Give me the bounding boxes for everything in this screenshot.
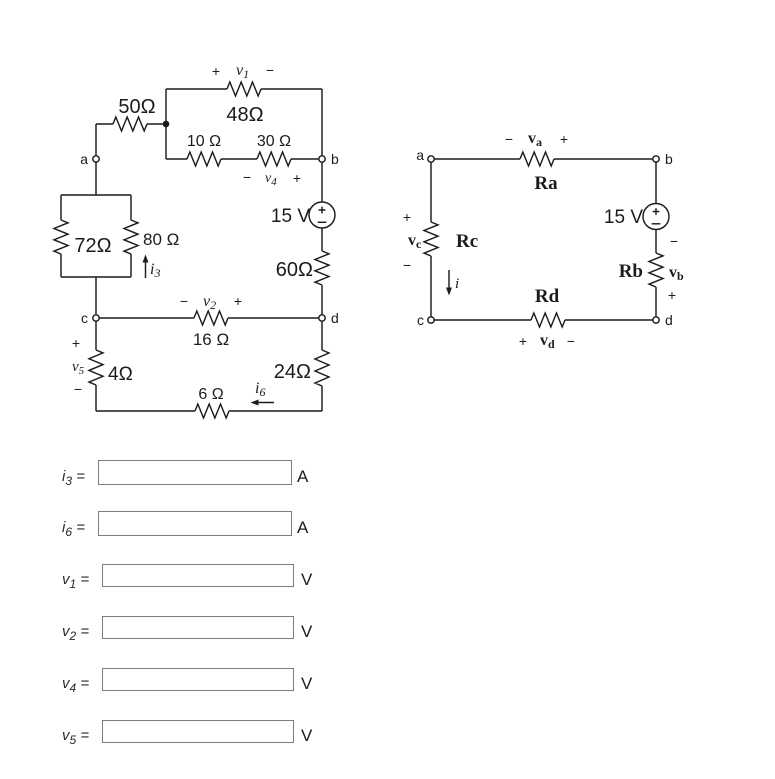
svg-text:−: −: [180, 293, 188, 309]
label 30 ohm: [257, 133, 291, 150]
label minus vc: [403, 257, 411, 273]
label 15V left: [271, 206, 310, 227]
resistor Rd: [531, 313, 565, 327]
answer row v5: [62, 727, 89, 744]
wire middle branch seg1: [166, 158, 187, 160]
label 50 ohm: [118, 96, 155, 118]
label plus v2: [234, 293, 242, 309]
wire a2 down: [430, 162, 432, 222]
answer row i3: [62, 468, 85, 485]
wire node a down: [95, 162, 97, 195]
node b: [319, 156, 325, 162]
svg-text:a: a: [80, 151, 88, 167]
resistor 10 ohm: [187, 152, 221, 166]
wire b2 down to source: [655, 162, 657, 203]
label plus v4: [293, 170, 301, 186]
wire junction up to top branch: [165, 89, 167, 124]
label 48 ohm: [226, 104, 263, 126]
voltage source 15V right circuit: [643, 204, 669, 230]
wire right bottom branch lower: [321, 386, 323, 411]
label 80 ohm: [143, 230, 179, 249]
svg-text:+: +: [212, 63, 220, 79]
svg-text:+: +: [293, 170, 301, 186]
label minus vd: [567, 333, 575, 349]
svg-text:+: +: [234, 293, 242, 309]
label 10 ohm: [187, 133, 221, 150]
label minus v1: [266, 62, 274, 78]
current arrow i6: [251, 400, 275, 406]
label node a2: [416, 147, 424, 163]
resistor 48 ohm: [227, 82, 261, 96]
label 6 ohm: [198, 386, 223, 403]
label va: [528, 130, 542, 149]
wire b down to source: [321, 162, 323, 202]
svg-text:50Ω: 50Ω: [118, 96, 155, 118]
label plus vd: [519, 333, 527, 349]
node d: [319, 315, 325, 321]
svg-text:15 V: 15 V: [271, 206, 310, 227]
wire 16-ohm to d: [228, 317, 319, 319]
svg-text:Rb: Rb: [619, 261, 643, 282]
resistor 6 ohm: [195, 404, 229, 418]
resistor Ra: [520, 152, 554, 166]
answer row v2: [62, 623, 89, 640]
label v4: [265, 171, 277, 188]
answer row i6: [62, 519, 85, 536]
wire a2 to Ra: [434, 158, 520, 160]
label Rc: [456, 231, 478, 252]
svg-text:+: +: [560, 131, 568, 147]
svg-text:v4: v4: [265, 171, 277, 188]
svg-text:60Ω: 60Ω: [276, 259, 313, 281]
parallel box left edge lower: [60, 254, 62, 277]
label minus v5: [74, 381, 82, 397]
resistor 24 ohm: [315, 350, 329, 386]
current arrow i3: [143, 255, 149, 279]
label node c: [81, 310, 88, 326]
wire top branch right: [261, 88, 322, 90]
svg-text:−: −: [266, 62, 274, 78]
svg-text:i6: i6: [255, 380, 265, 399]
label 4 ohm: [108, 364, 133, 385]
node a right circuit: [428, 156, 434, 162]
svg-text:a: a: [416, 147, 424, 163]
label plus vb: [668, 287, 676, 303]
svg-text:va: va: [528, 130, 542, 149]
label vc: [408, 232, 422, 251]
parallel box top edge: [61, 194, 131, 196]
label v5: [72, 359, 85, 377]
junction dot: [163, 121, 170, 128]
svg-text:vc: vc: [408, 232, 422, 251]
wire top branch left: [166, 88, 227, 90]
wire box to node c: [95, 277, 97, 315]
label i6: [255, 380, 265, 399]
wire a to 50-ohm resistor: [96, 123, 113, 125]
wire bottom seg1: [96, 410, 195, 412]
wire node a up: [95, 124, 97, 156]
label minus source: [670, 233, 678, 249]
label minus v4: [243, 169, 251, 185]
wire 4-ohm to bottom: [95, 385, 97, 411]
wire Rc to c2: [430, 256, 432, 317]
label plus va: [560, 131, 568, 147]
wire Rb to d2: [655, 287, 657, 317]
svg-text:c: c: [81, 310, 88, 326]
svg-text:48Ω: 48Ω: [226, 104, 263, 126]
node c right circuit: [428, 317, 434, 323]
svg-text:+: +: [668, 287, 676, 303]
label Rd: [535, 286, 560, 307]
label 60 ohm: [276, 259, 313, 281]
label 15V right circuit: [604, 207, 643, 228]
svg-text:−: −: [505, 131, 513, 147]
wire right vertical top to b: [321, 89, 323, 156]
svg-text:−: −: [243, 169, 251, 185]
label node c2: [417, 312, 424, 328]
node b right circuit: [653, 156, 659, 162]
svg-text:b: b: [331, 151, 339, 167]
answer row v4: [62, 675, 89, 692]
svg-text:−: −: [670, 233, 678, 249]
wire bottom seg2: [229, 410, 322, 412]
resistor Rc: [424, 222, 438, 256]
wire source to 60-ohm: [321, 228, 323, 251]
label plus v1: [212, 63, 220, 79]
resistor 4 ohm: [89, 350, 103, 385]
resistor 50 ohm: [113, 117, 147, 131]
voltage source 15V: [309, 202, 335, 228]
svg-text:v2: v2: [203, 293, 216, 312]
label Rb: [619, 261, 643, 282]
label minus va: [505, 131, 513, 147]
resistor 16 ohm: [194, 311, 228, 325]
resistor 30 ohm: [257, 152, 291, 166]
svg-text:+: +: [403, 209, 411, 225]
svg-text:c: c: [417, 312, 424, 328]
parallel box bottom edge: [61, 276, 131, 278]
wire junction down to middle branch: [165, 124, 167, 159]
node a: [93, 156, 99, 162]
label i: [455, 276, 459, 292]
svg-text:−: −: [74, 381, 82, 397]
svg-text:72Ω: 72Ω: [74, 235, 111, 257]
wire middle branch seg2: [221, 158, 257, 160]
wire source to Rb: [655, 230, 657, 254]
svg-text:d: d: [665, 312, 673, 328]
svg-text:i3: i3: [150, 261, 160, 280]
wire middle branch seg3: [291, 158, 319, 160]
parallel box right edge lower: [130, 254, 132, 277]
wire c down: [95, 321, 97, 350]
label i3: [150, 261, 160, 280]
svg-text:Ra: Ra: [534, 173, 558, 194]
label plus v5: [72, 335, 80, 351]
svg-text:4Ω: 4Ω: [108, 364, 133, 385]
wire Rd to d2: [565, 319, 653, 321]
svg-text:vb: vb: [669, 264, 684, 283]
answer row v1: [62, 571, 89, 588]
svg-text:+: +: [519, 333, 527, 349]
svg-text:30 Ω: 30 Ω: [257, 133, 291, 150]
label 24 ohm: [274, 361, 311, 383]
svg-text:24Ω: 24Ω: [274, 361, 311, 383]
wire right bottom branch upper: [321, 321, 323, 350]
svg-text:+: +: [72, 335, 80, 351]
label node d: [331, 310, 339, 326]
wire c to 16-ohm: [99, 317, 194, 319]
svg-text:6 Ω: 6 Ω: [198, 386, 223, 403]
resistor Rb: [649, 253, 663, 287]
resistor 60 ohm: [315, 251, 329, 285]
svg-text:Rd: Rd: [535, 286, 560, 307]
parallel box right edge upper: [130, 195, 132, 220]
resistor 80 ohm: [124, 220, 138, 254]
current arrow i: [446, 270, 452, 296]
svg-text:i: i: [455, 276, 459, 292]
wire 60-ohm to d: [321, 285, 323, 315]
label node a: [80, 151, 88, 167]
label 16 ohm: [193, 330, 229, 349]
label vb: [669, 264, 684, 283]
label plus vc: [403, 209, 411, 225]
label vd: [540, 332, 555, 351]
parallel box left edge upper: [60, 195, 62, 220]
svg-text:−: −: [403, 257, 411, 273]
label v2: [203, 293, 216, 312]
svg-text:v1: v1: [236, 62, 249, 81]
svg-text:d: d: [331, 310, 339, 326]
svg-text:16 Ω: 16 Ω: [193, 330, 229, 349]
label 72 ohm: [74, 235, 111, 257]
label minus v2: [180, 293, 188, 309]
svg-text:vd: vd: [540, 332, 555, 351]
label node b: [331, 151, 339, 167]
wire c2 to Rd: [434, 319, 531, 321]
svg-text:Rc: Rc: [456, 231, 478, 252]
svg-text:v5: v5: [72, 359, 85, 377]
svg-text:80 Ω: 80 Ω: [143, 230, 179, 249]
svg-text:−: −: [567, 333, 575, 349]
svg-text:10 Ω: 10 Ω: [187, 133, 221, 150]
resistor 72 ohm: [54, 220, 68, 254]
node c: [93, 315, 99, 321]
svg-text:b: b: [665, 151, 673, 167]
svg-text:15 V: 15 V: [604, 207, 643, 228]
node d right circuit: [653, 317, 659, 323]
wire 50-ohm to junction: [147, 123, 166, 125]
label node d2: [665, 312, 673, 328]
label Ra: [534, 173, 558, 194]
label node b2: [665, 151, 673, 167]
wire Ra to b2: [554, 158, 653, 160]
label v1: [236, 62, 249, 81]
